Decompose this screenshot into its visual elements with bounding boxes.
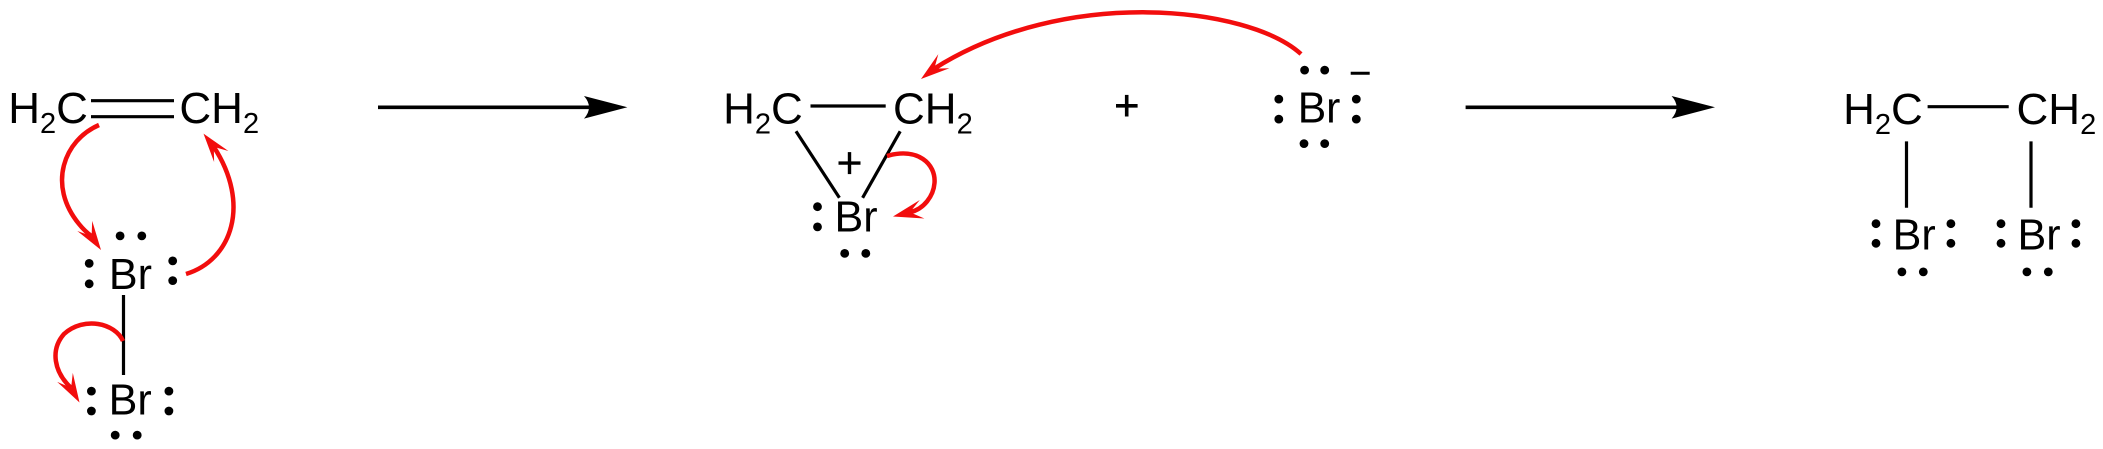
ethylene C=C double bond top line bbox=[91, 99, 174, 102]
ethylene C=C double bond bottom line bbox=[91, 115, 174, 118]
bromide lone pair dots top bbox=[1300, 66, 1309, 75]
right Br lone pair dots bottom bbox=[2023, 268, 2032, 277]
Br2 lone pair dots left bbox=[87, 387, 96, 396]
curved arrow: Br-Br bond to Br2 (red) bbox=[56, 324, 123, 388]
bromide lone pair dots left bbox=[1274, 95, 1283, 104]
Br2 lone pair dots bottom bbox=[111, 431, 120, 440]
dibromoethane C-Br bond left bbox=[1905, 141, 1908, 207]
svg-text:Br: Br bbox=[835, 193, 878, 241]
bromonium C-Br bond right bbox=[863, 131, 901, 198]
curved arrow: bromide to carbon (red, big arc) bbox=[934, 12, 1301, 68]
curved arrow: Br lone pair to CH2 (red) bbox=[186, 147, 233, 274]
dibromoethane C-C bond bbox=[1928, 105, 2009, 108]
svg-text:Br: Br bbox=[1298, 84, 1341, 133]
svg-text:Br: Br bbox=[1893, 211, 1936, 259]
dibromoethane C-Br bond right bbox=[2029, 141, 2032, 207]
Br1 lone pair dots right bbox=[168, 257, 177, 266]
bromide minus charge bbox=[1351, 72, 1370, 75]
bromonium Br lone pair dots bottom bbox=[840, 249, 849, 258]
curved arrow: pi bond to Br (red) bbox=[62, 125, 99, 236]
svg-text:Br: Br bbox=[109, 376, 152, 424]
reaction arrow 2 bbox=[1466, 106, 1683, 110]
bromonium C-C bond bbox=[811, 104, 886, 107]
Br1 lone pair dots left bbox=[85, 259, 94, 268]
svg-text:Br: Br bbox=[2018, 211, 2061, 259]
Br1 lone pair dots top bbox=[116, 232, 125, 241]
left Br lone pair dots bottom bbox=[1898, 268, 1907, 277]
left Br lone pair dots right bbox=[1947, 219, 1956, 228]
bromonium Br lone pair dots left bbox=[813, 202, 822, 211]
bromide lone pair dots bottom bbox=[1300, 139, 1309, 148]
curved arrow: C-Br bond to Br (red, middle) bbox=[887, 154, 935, 213]
svg-text:Br: Br bbox=[109, 251, 152, 299]
right Br lone pair dots left bbox=[1997, 219, 2006, 228]
Br-Br bond bbox=[122, 295, 125, 375]
bromonium plus charge bbox=[839, 152, 861, 174]
reaction plus sign bbox=[1116, 95, 1138, 117]
reaction arrow 1 bbox=[378, 106, 595, 110]
bromonium C-Br bond left bbox=[796, 131, 839, 198]
bromide lone pair dots right bbox=[1352, 95, 1361, 104]
right Br lone pair dots right bbox=[2072, 219, 2081, 228]
left Br lone pair dots left bbox=[1872, 219, 1881, 228]
Br2 lone pair dots right bbox=[165, 387, 174, 396]
